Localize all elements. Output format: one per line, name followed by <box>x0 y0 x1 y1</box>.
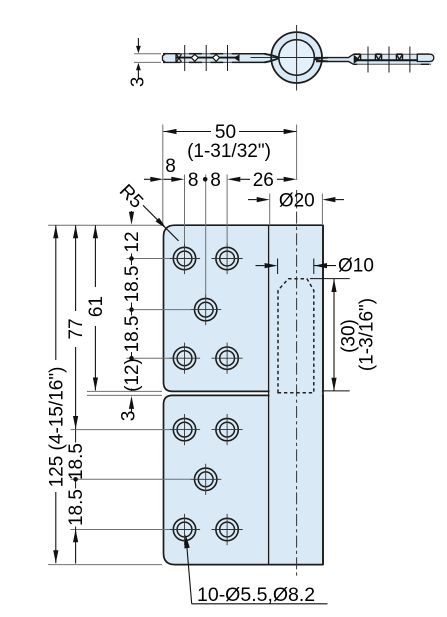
lower leaf top extension line <box>87 394 162 396</box>
hole B3 (middle) <box>195 468 217 490</box>
chain top arrow <box>131 211 133 218</box>
pin center line <box>296 125 298 181</box>
hole A2 <box>216 247 238 269</box>
top view right knuckle transition pinch <box>314 58 328 62</box>
lower hinge leaf (blue plate) <box>164 395 324 564</box>
dimension 8 first arrows <box>144 178 157 180</box>
chain dot row2 <box>129 307 134 312</box>
svg-text:3: 3 <box>119 411 140 422</box>
top view right leaf dark top segments <box>354 53 361 55</box>
dimension 26 line <box>227 177 240 182</box>
top view knuckle outer circle <box>271 32 322 83</box>
svg-text:(1-3/16"): (1-3/16") <box>356 298 377 371</box>
svg-text:12: 12 <box>122 231 143 252</box>
hole A4 <box>173 347 195 369</box>
plate top extension line <box>48 224 162 226</box>
hole column extension lines <box>184 175 186 244</box>
dimension 77 line <box>73 225 78 238</box>
hole row extension lines upper <box>127 258 171 260</box>
knuckle left edge line <box>268 225 270 564</box>
hole B4 <box>173 518 195 540</box>
hole B1 <box>173 418 195 440</box>
knuckle column bridge <box>270 389 322 397</box>
top view right leaf neck lines <box>316 54 354 64</box>
plate bottom extension line <box>48 564 162 566</box>
top view knuckle horizontal center line <box>251 57 344 59</box>
top view right leaf countersink profiles <box>357 55 361 61</box>
svg-text:Ø20: Ø20 <box>279 190 315 211</box>
top view right leaf plate (blue fill) <box>321 54 434 64</box>
svg-text:Ø10: Ø10 <box>338 256 374 277</box>
top view right leaf lower section line <box>355 59 418 61</box>
dimension 125 line <box>53 225 58 238</box>
plate left edge extension line <box>162 125 164 226</box>
dimension diameter-10 extension ticks <box>277 259 279 275</box>
dimension 61 line <box>93 225 98 238</box>
hole B5 <box>216 518 238 540</box>
svg-text:26: 26 <box>253 170 274 191</box>
top view left leaf plate (blue fill) <box>164 54 273 63</box>
chain dot row1 <box>129 256 134 261</box>
svg-text:(12): (12) <box>122 358 143 392</box>
dimension diameter-10 arrows <box>256 265 265 267</box>
top view left leaf hole center ticks <box>184 45 186 71</box>
lower chain line segments <box>75 430 77 443</box>
chain bottom arrow <box>73 529 78 542</box>
svg-text:8: 8 <box>210 170 221 191</box>
svg-text:3: 3 <box>127 77 148 87</box>
top view right leaf hole center ticks <box>367 47 369 73</box>
dimension 30 line <box>333 279 335 391</box>
dimension 30 extension lines <box>310 278 350 280</box>
plate right edge line <box>322 225 324 564</box>
svg-text:61: 61 <box>86 296 107 317</box>
svg-text:18.5: 18.5 <box>122 266 143 303</box>
top view right leaf end cap <box>417 54 434 61</box>
top view left leaf dark surface segments <box>163 53 180 55</box>
top view left leaf countersink cross <box>176 54 181 62</box>
svg-text:18.5: 18.5 <box>122 316 143 353</box>
svg-text:(1-31/32"): (1-31/32") <box>187 141 271 162</box>
svg-text:8: 8 <box>165 156 176 177</box>
svg-text:18.5: 18.5 <box>66 443 87 480</box>
top view left leaf end cap <box>163 54 177 63</box>
top view knuckle vertical center line <box>296 25 298 91</box>
upper hinge leaf (blue plate) <box>164 225 324 391</box>
top view left leaf mid section line <box>177 57 239 59</box>
upper chain line segments <box>131 254 133 266</box>
dimension 3 (leaf thickness) arrows <box>137 38 139 46</box>
svg-text:77: 77 <box>66 318 87 339</box>
chain dot row3 <box>129 356 134 361</box>
chain dot at middle column <box>203 177 208 182</box>
top view left leaf to knuckle transition <box>265 54 280 63</box>
hole row extension lines lower <box>71 429 171 431</box>
dimension 3 gap arrow <box>129 396 134 409</box>
top view knuckle inner circle (pin bore) <box>279 40 315 76</box>
svg-text:8: 8 <box>188 170 199 191</box>
dimension diameter-20 arrows <box>248 199 257 201</box>
svg-text:125 (4-15/16"): 125 (4-15/16") <box>46 367 67 488</box>
svg-text:18.5: 18.5 <box>66 489 87 526</box>
upper leaf bottom extension line <box>87 390 162 392</box>
dimension 50 line <box>164 131 212 133</box>
svg-text:R5: R5 <box>115 181 147 213</box>
radius R5 leader <box>143 205 179 241</box>
svg-text:10-Ø5.5,Ø8.2: 10-Ø5.5,Ø8.2 <box>197 584 315 606</box>
top view left leaf countersink wedge <box>234 54 240 62</box>
svg-text:50: 50 <box>215 122 236 143</box>
chain dot lower <box>73 477 78 482</box>
leader 10-holes <box>184 534 190 548</box>
hole A5 <box>216 347 238 369</box>
top view right leaf faint surface lines <box>354 53 432 55</box>
hole B2 <box>216 418 238 440</box>
top view right leaf countersink wedge <box>354 55 360 64</box>
top view right leaf dark bottom segments <box>354 63 358 65</box>
hidden hinge pin (dashed outline) <box>278 279 314 393</box>
top view left leaf material diamond 2 <box>213 54 220 61</box>
hole A3 (middle) <box>195 298 217 320</box>
top view left leaf faint surface lines <box>163 53 266 55</box>
top view left leaf material diamond 1 <box>191 54 198 61</box>
hole A1 <box>173 247 195 269</box>
knuckle diameter extension lines <box>269 194 271 226</box>
dimension 3 (leaf thickness) extension lines <box>134 53 161 55</box>
